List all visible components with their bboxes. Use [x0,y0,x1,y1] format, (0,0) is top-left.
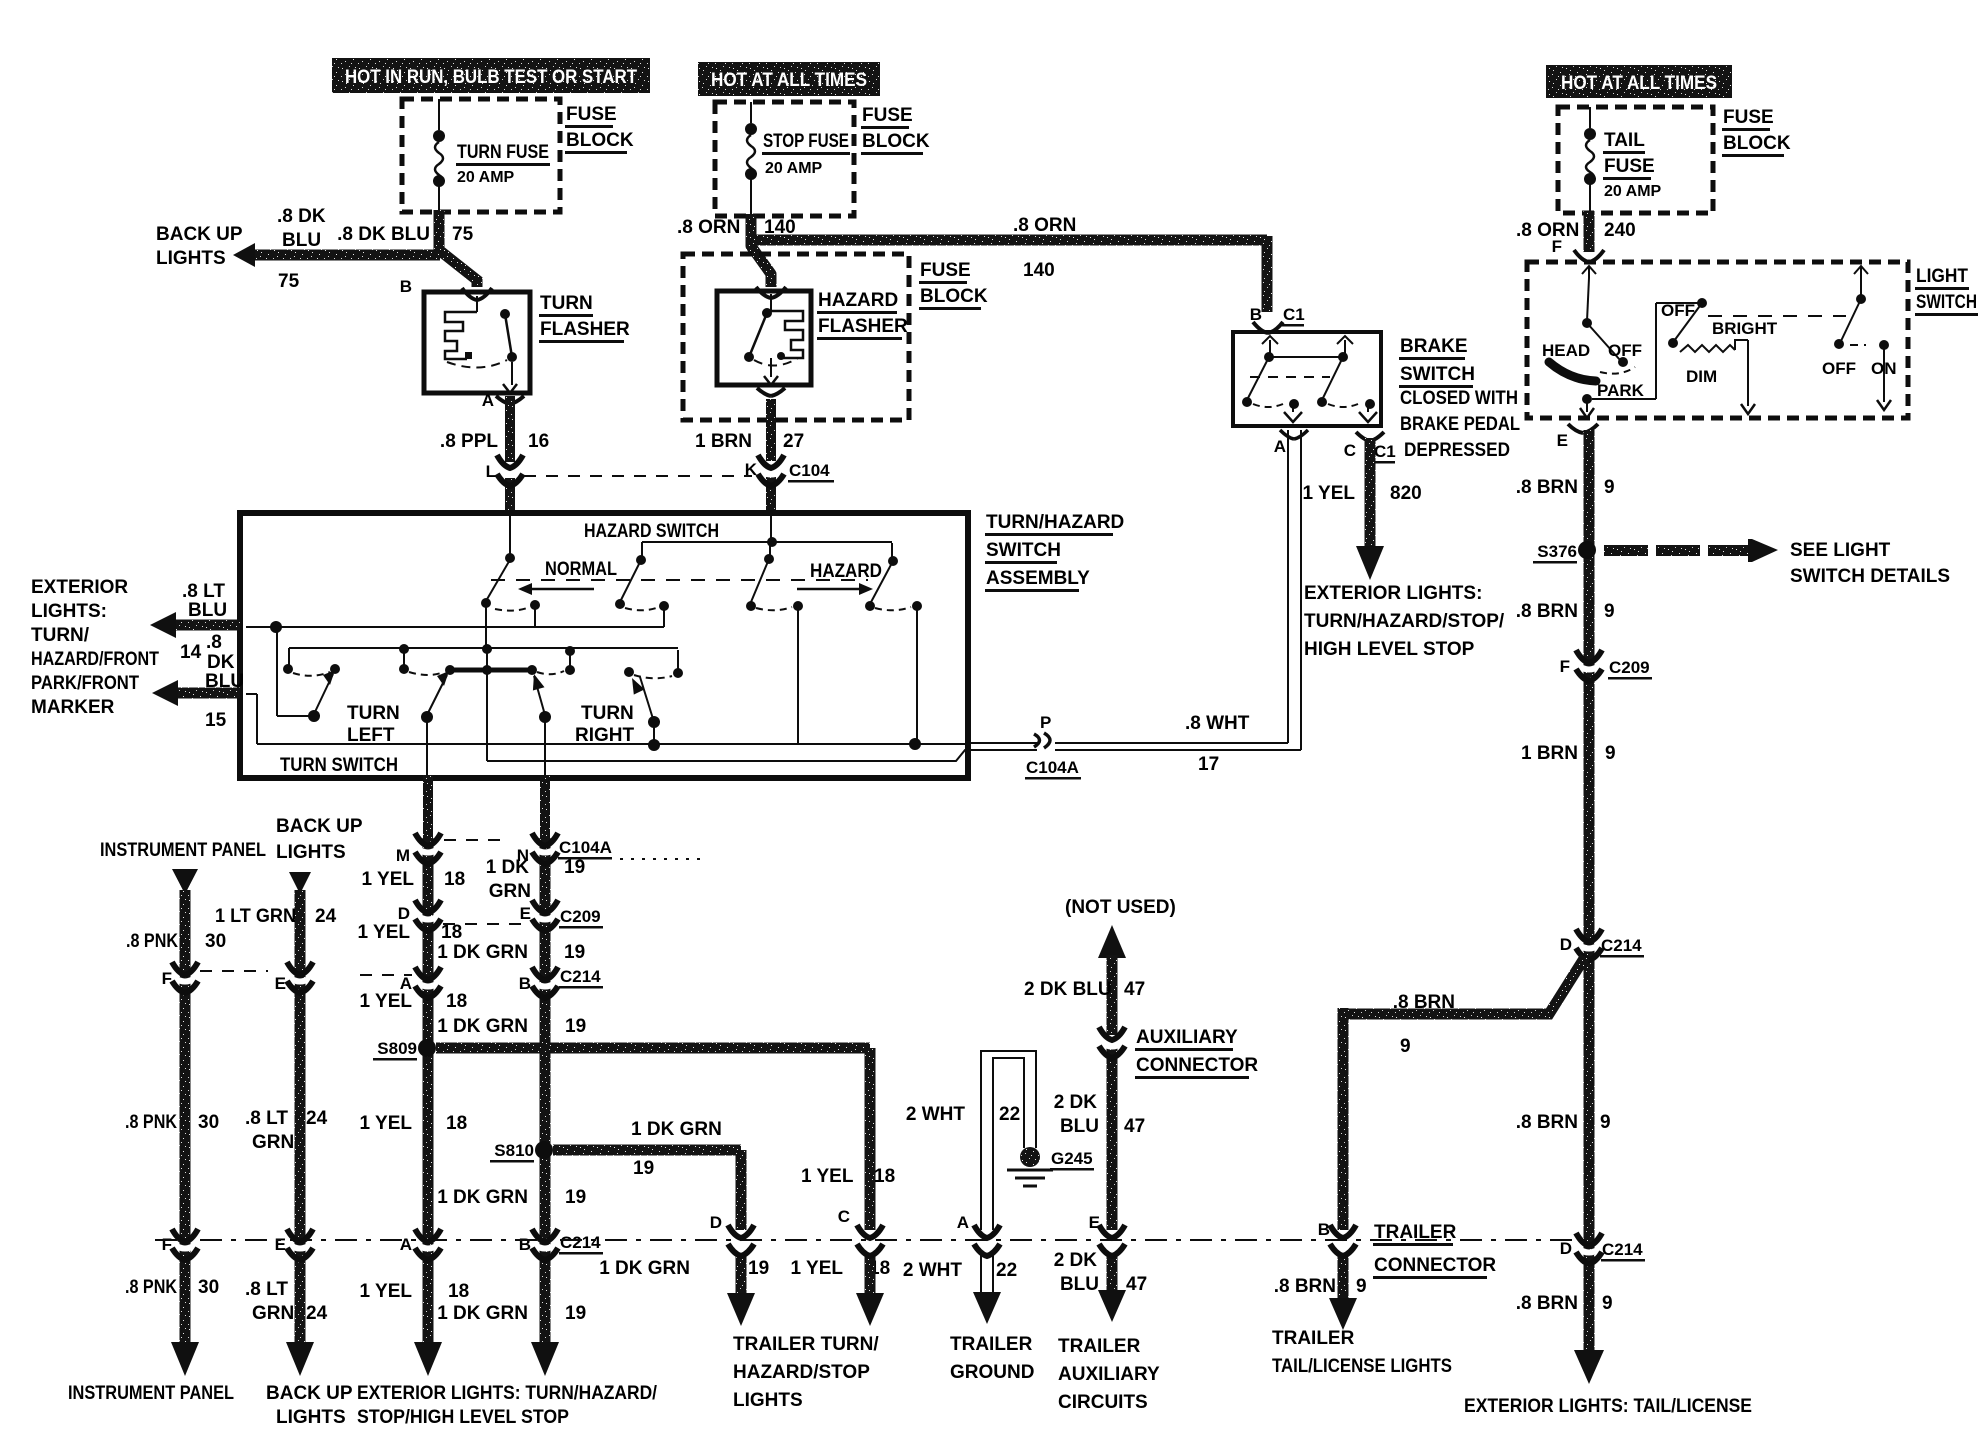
svg-text:9: 9 [1356,1276,1367,1297]
svg-text:.8 BRN: .8 BRN [1516,1293,1578,1314]
svg-text:CLOSED WITH: CLOSED WITH [1400,388,1518,409]
svg-text:BRIGHT: BRIGHT [1712,319,1778,338]
svg-text:30: 30 [198,1277,219,1298]
svg-text:TURN: TURN [347,703,400,724]
svg-text:22: 22 [996,1260,1017,1281]
svg-text:S810: S810 [494,1141,534,1160]
svg-text:E: E [275,974,286,993]
svg-text:PARK: PARK [1597,381,1645,400]
svg-text:G245: G245 [1051,1149,1093,1168]
svg-text:18: 18 [446,1113,467,1134]
svg-text:SWITCH: SWITCH [986,540,1061,561]
svg-text:TURN: TURN [540,293,593,314]
svg-text:.8 ORN: .8 ORN [1516,220,1579,241]
svg-text:FLASHER: FLASHER [540,319,630,340]
svg-text:.8: .8 [206,632,222,653]
svg-text:820: 820 [1390,483,1422,504]
svg-text:TURN/: TURN/ [31,625,90,646]
svg-text:TAIL: TAIL [1604,130,1645,151]
svg-text:2 DK: 2 DK [1054,1092,1098,1113]
svg-text:HAZARD SWITCH: HAZARD SWITCH [584,521,719,542]
svg-text:BLU: BLU [188,600,227,621]
svg-text:A: A [400,1235,412,1254]
svg-text:.8 DK: .8 DK [277,206,326,227]
svg-text:1 LT GRN: 1 LT GRN [215,906,296,927]
svg-text:MARKER: MARKER [31,697,115,718]
svg-text:TURN/HAZARD/STOP/: TURN/HAZARD/STOP/ [1304,611,1505,632]
svg-text:1 DK GRN: 1 DK GRN [631,1119,722,1140]
svg-text:C: C [1344,441,1356,460]
svg-text:FUSE: FUSE [1604,156,1655,177]
svg-text:.8 BRN: .8 BRN [1516,601,1578,622]
svg-text:TRAILER: TRAILER [1272,1328,1355,1349]
svg-text:.8 BRN: .8 BRN [1516,1112,1578,1133]
svg-text:24: 24 [315,906,337,927]
svg-text:BLU: BLU [205,671,244,692]
svg-text:HOT AT ALL TIMES: HOT AT ALL TIMES [711,70,867,91]
svg-text:GRN: GRN [489,881,531,902]
svg-text:.8 PNK: .8 PNK [125,1277,177,1298]
svg-text:27: 27 [783,431,804,452]
svg-text:.8 PPL: .8 PPL [440,431,498,452]
svg-text:19: 19 [564,857,585,878]
svg-text:STOP/HIGH LEVEL STOP: STOP/HIGH LEVEL STOP [357,1407,569,1428]
svg-text:EXTERIOR LIGHTS: TAIL/LICENSE: EXTERIOR LIGHTS: TAIL/LICENSE [1464,1396,1752,1417]
svg-text:30: 30 [205,931,226,952]
svg-text:M: M [396,846,410,865]
svg-text:B: B [400,277,412,296]
svg-text:47: 47 [1124,979,1145,1000]
svg-text:A: A [482,391,494,410]
svg-text:2 WHT: 2 WHT [903,1260,963,1281]
svg-text:C214: C214 [560,1233,601,1252]
svg-text:TAIL/LICENSE LIGHTS: TAIL/LICENSE LIGHTS [1272,1356,1452,1377]
svg-text:19: 19 [565,1303,586,1324]
svg-text:1 DK GRN: 1 DK GRN [437,1187,528,1208]
svg-text:C214: C214 [560,967,601,986]
svg-text:140: 140 [1023,260,1055,281]
svg-text:LIGHT: LIGHT [1916,266,1968,287]
svg-text:NORMAL: NORMAL [545,559,617,580]
svg-text:9: 9 [1605,743,1616,764]
svg-text:1 DK GRN: 1 DK GRN [599,1258,690,1279]
svg-text:HIGH LEVEL STOP: HIGH LEVEL STOP [1304,639,1475,660]
svg-text:ON: ON [1871,359,1897,378]
svg-text:.8 LT: .8 LT [182,581,225,602]
svg-text:D: D [1560,935,1572,954]
svg-text:2 DK BLU: 2 DK BLU [1024,979,1112,1000]
svg-text:75: 75 [278,271,300,292]
svg-text:F: F [1552,237,1562,256]
svg-text:240: 240 [1604,220,1636,241]
svg-text:2 DK: 2 DK [1054,1250,1098,1271]
svg-text:SEE LIGHT: SEE LIGHT [1790,540,1891,561]
svg-text:.8 BRN: .8 BRN [1516,477,1578,498]
svg-text:20 AMP: 20 AMP [765,160,823,177]
svg-text:1 YEL: 1 YEL [360,1113,413,1134]
svg-text:1 BRN: 1 BRN [695,431,752,452]
svg-text:24: 24 [306,1108,328,1129]
svg-text:TRAILER TURN/: TRAILER TURN/ [733,1334,879,1355]
svg-text:1 YEL: 1 YEL [360,991,413,1012]
svg-text:F: F [162,969,172,988]
svg-text:AUXILIARY: AUXILIARY [1058,1364,1160,1385]
svg-text:LIGHTS: LIGHTS [276,842,346,863]
svg-text:75: 75 [452,224,474,245]
svg-text:1 YEL: 1 YEL [360,1281,413,1302]
svg-text:A: A [957,1213,969,1232]
svg-text:18: 18 [874,1166,895,1187]
svg-text:OFF: OFF [1661,301,1695,320]
svg-text:SWITCH DETAILS: SWITCH DETAILS [1790,566,1950,587]
svg-text:EXTERIOR: EXTERIOR [31,577,128,598]
svg-text:24: 24 [306,1303,328,1324]
svg-text:FUSE: FUSE [862,105,913,126]
svg-text:LIGHTS: LIGHTS [733,1390,803,1411]
svg-text:INSTRUMENT PANEL: INSTRUMENT PANEL [100,840,266,861]
svg-text:HOT AT ALL TIMES: HOT AT ALL TIMES [1561,73,1717,94]
svg-text:TURN SWITCH: TURN SWITCH [280,755,398,776]
svg-text:HAZARD: HAZARD [818,290,898,311]
svg-text:EXTERIOR LIGHTS: TURN/HAZARD/: EXTERIOR LIGHTS: TURN/HAZARD/ [357,1383,658,1404]
svg-text:A: A [1274,437,1286,456]
svg-text:FLASHER: FLASHER [818,316,908,337]
svg-text:LEFT: LEFT [347,725,395,746]
svg-text:15: 15 [205,710,227,731]
svg-text:18: 18 [448,1281,469,1302]
svg-text:.8 LT: .8 LT [245,1108,288,1129]
svg-text:ASSEMBLY: ASSEMBLY [986,568,1090,589]
svg-text:SWITCH: SWITCH [1400,364,1475,385]
svg-text:TURN FUSE: TURN FUSE [457,142,549,163]
svg-text:GROUND: GROUND [950,1362,1034,1383]
svg-text:9: 9 [1602,1293,1613,1314]
svg-text:E: E [1557,431,1568,450]
svg-text:B: B [519,974,531,993]
svg-text:18: 18 [441,922,462,943]
svg-text:DIM: DIM [1686,367,1717,386]
svg-text:C209: C209 [560,907,601,926]
svg-text:D: D [398,904,410,923]
svg-text:9: 9 [1604,601,1615,622]
svg-text:FUSE: FUSE [1723,107,1774,128]
svg-text:.8 LT: .8 LT [245,1279,288,1300]
svg-text:BACK UP: BACK UP [276,816,363,837]
svg-text:14: 14 [180,642,202,663]
svg-text:2 WHT: 2 WHT [906,1104,966,1125]
svg-text:L: L [486,462,496,481]
svg-text:B: B [1318,1220,1330,1239]
svg-text:S376: S376 [1537,542,1577,561]
svg-text:C1: C1 [1283,305,1305,324]
svg-text:TURN: TURN [581,703,634,724]
svg-text:19: 19 [633,1158,654,1179]
svg-text:22: 22 [999,1104,1020,1125]
svg-text:P: P [1040,713,1051,732]
svg-text:.8 PNK: .8 PNK [126,931,178,952]
svg-text:19: 19 [565,1187,586,1208]
svg-text:BACK UP: BACK UP [156,224,243,245]
svg-text:E: E [275,1235,286,1254]
svg-text:C: C [838,1207,850,1226]
svg-text:AUXILIARY: AUXILIARY [1136,1027,1238,1048]
svg-text:STOP FUSE: STOP FUSE [763,131,849,152]
svg-text:1 BRN: 1 BRN [1521,743,1578,764]
svg-text:C104: C104 [789,461,830,480]
svg-text:CIRCUITS: CIRCUITS [1058,1392,1148,1413]
svg-text:.8 BRN: .8 BRN [1393,992,1455,1013]
svg-text:1 DK GRN: 1 DK GRN [437,1303,528,1324]
svg-text:9: 9 [1400,1036,1411,1057]
svg-text:1 YEL: 1 YEL [791,1258,844,1279]
svg-text:TRAILER: TRAILER [950,1334,1033,1355]
svg-text:HAZARD/FRONT: HAZARD/FRONT [31,649,159,670]
svg-text:BLU: BLU [282,230,321,251]
svg-text:BRAKE: BRAKE [1400,336,1468,357]
svg-text:20 AMP: 20 AMP [1604,183,1662,200]
svg-text:D: D [710,1213,722,1232]
svg-text:RIGHT: RIGHT [575,725,635,746]
svg-text:GRN: GRN [252,1303,294,1324]
svg-text:DEPRESSED: DEPRESSED [1404,440,1510,461]
svg-text:19: 19 [565,1016,586,1037]
svg-text:BLOCK: BLOCK [862,131,930,152]
svg-text:20 AMP: 20 AMP [457,169,515,186]
svg-text:CONNECTOR: CONNECTOR [1136,1055,1258,1076]
svg-text:1 DK GRN: 1 DK GRN [437,1016,528,1037]
svg-text:.8 PNK: .8 PNK [125,1112,177,1133]
svg-text:9: 9 [1600,1112,1611,1133]
svg-text:S809: S809 [377,1039,417,1058]
svg-text:EXTERIOR LIGHTS:: EXTERIOR LIGHTS: [1304,583,1482,604]
svg-text:HAZARD: HAZARD [810,561,882,582]
svg-text:BLOCK: BLOCK [920,286,988,307]
svg-text:DK: DK [207,652,235,673]
svg-text:19: 19 [748,1258,769,1279]
svg-text:HAZARD/STOP: HAZARD/STOP [733,1362,870,1383]
svg-text:B: B [1250,305,1262,324]
svg-text:47: 47 [1124,1116,1145,1137]
svg-text:1 YEL: 1 YEL [801,1166,854,1187]
svg-text:.8 DK BLU: .8 DK BLU [337,224,430,245]
svg-text:HEAD: HEAD [1542,341,1590,360]
svg-text:16: 16 [528,431,549,452]
svg-text:BLU: BLU [1060,1274,1099,1295]
svg-text:C214: C214 [1602,1240,1643,1259]
svg-text:30: 30 [198,1112,219,1133]
svg-text:18: 18 [444,869,465,890]
svg-text:C209: C209 [1609,658,1650,677]
svg-text:18: 18 [446,991,467,1012]
svg-text:D: D [1560,1239,1572,1258]
svg-text:C104A: C104A [1026,758,1079,777]
svg-text:17: 17 [1198,754,1219,775]
svg-text:HOT IN RUN, BULB TEST OR START: HOT IN RUN, BULB TEST OR START [345,67,637,88]
svg-text:OFF: OFF [1608,341,1642,360]
svg-text:OFF: OFF [1822,359,1856,378]
svg-text:1 DK GRN: 1 DK GRN [437,942,528,963]
svg-text:.8 WHT: .8 WHT [1185,713,1250,734]
svg-text:BLOCK: BLOCK [1723,133,1791,154]
svg-text:E: E [520,904,531,923]
svg-text:TURN/HAZARD: TURN/HAZARD [986,512,1124,533]
svg-text:LIGHTS:: LIGHTS: [31,601,107,622]
svg-text:.8 ORN: .8 ORN [677,217,740,238]
svg-text:1 YEL: 1 YEL [362,869,415,890]
svg-text:47: 47 [1126,1274,1147,1295]
svg-text:C214: C214 [1601,936,1642,955]
svg-text:BLOCK: BLOCK [566,130,634,151]
svg-text:GRN: GRN [252,1132,294,1153]
svg-text:9: 9 [1604,477,1615,498]
svg-text:FUSE: FUSE [566,104,617,125]
svg-text:(NOT USED): (NOT USED) [1065,897,1176,918]
svg-text:C104A: C104A [559,838,612,857]
svg-text:.8 BRN: .8 BRN [1274,1276,1336,1297]
svg-text:FUSE: FUSE [920,260,971,281]
svg-text:140: 140 [764,217,796,238]
svg-text:PARK/FRONT: PARK/FRONT [31,673,139,694]
svg-text:INSTRUMENT PANEL: INSTRUMENT PANEL [68,1383,234,1404]
svg-text:LIGHTS: LIGHTS [156,248,226,269]
svg-text:F: F [1560,657,1570,676]
svg-text:SWITCH: SWITCH [1916,292,1977,313]
svg-text:CONNECTOR: CONNECTOR [1374,1255,1496,1276]
svg-text:LIGHTS: LIGHTS [276,1407,346,1428]
svg-text:1 YEL: 1 YEL [358,922,411,943]
svg-text:BRAKE PEDAL: BRAKE PEDAL [1400,414,1520,435]
svg-text:BLU: BLU [1060,1116,1099,1137]
svg-text:1 DK: 1 DK [486,857,530,878]
svg-text:C1: C1 [1374,442,1396,461]
svg-text:BACK UP: BACK UP [266,1383,353,1404]
svg-text:19: 19 [564,942,585,963]
svg-text:TRAILER: TRAILER [1058,1336,1141,1357]
svg-text:.8 ORN: .8 ORN [1013,215,1076,236]
svg-text:1 YEL: 1 YEL [1303,483,1356,504]
svg-text:B: B [519,1235,531,1254]
